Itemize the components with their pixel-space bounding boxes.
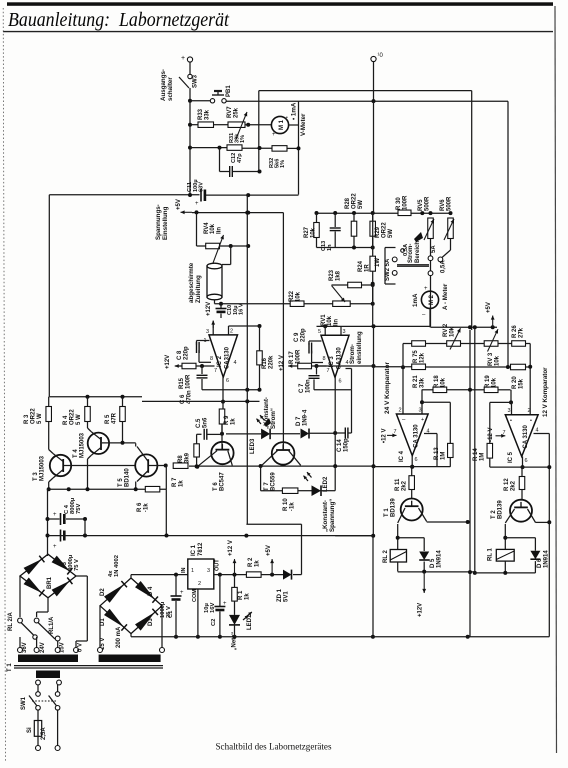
+5V arrow [492, 316, 494, 328]
svg-text:IN: IN [181, 567, 187, 573]
primary terminals [36, 680, 41, 685]
wire main rail [49, 194, 199, 196]
transistor T3 MJ15003 [50, 455, 71, 476]
op-amp IC2 CA3130 [209, 335, 238, 377]
wire T4 collector [88, 428, 92, 432]
wire right vertical x548 lower [548, 522, 550, 637]
svg-text:+: + [180, 590, 184, 596]
svg-text:0,5A: 0,5A [441, 260, 447, 273]
resistor R17 100R [289, 365, 298, 367]
transistor T6 BC547 [211, 442, 233, 464]
wire br1 left to RL2/A [19, 576, 21, 617]
wire bottom-left rail [48, 488, 167, 490]
resistor R16 220k [257, 351, 263, 365]
wire emitter to R10 [260, 466, 262, 491]
arrow +5V Spannungs-Einstellung [181, 211, 193, 213]
resistor R22 10k [215, 303, 291, 305]
svg-text:+: + [424, 286, 428, 292]
resistor R1 1k [234, 575, 236, 588]
resistor R14 1M [490, 401, 511, 403]
node [188, 193, 192, 197]
svg-text:3: 3 [343, 329, 346, 335]
svg-text:Si: Si [27, 727, 33, 733]
svg-text:3: 3 [207, 568, 210, 574]
svg-text:+12V: +12V [206, 302, 212, 316]
svg-text:IC 4: IC 4 [399, 450, 405, 462]
svg-text:2: 2 [399, 408, 402, 414]
svg-text:24V: 24V [40, 642, 46, 653]
potentiometer RV2 10k [447, 341, 461, 347]
fuse Si 2,5A [37, 710, 39, 720]
resistor R8 3k9 [194, 444, 200, 457]
capacitor C4 8000u 75V [48, 518, 60, 520]
node [371, 302, 375, 306]
svg-text:3: 3 [508, 408, 511, 414]
wire main raw rail [48, 535, 374, 537]
wire ic3 top line [317, 325, 431, 327]
svg-text:2: 2 [528, 408, 531, 414]
svg-text:8: 8 [210, 356, 213, 362]
wire [189, 62, 191, 74]
transistor T2 BD139 [510, 500, 532, 522]
wire IC1 COM down [197, 589, 199, 637]
resistor R28 OR22 5W [353, 213, 355, 221]
svg-text:6: 6 [415, 457, 418, 463]
wire +12V top [212, 321, 214, 335]
svg-text:RL1/A: RL1/A [49, 616, 55, 634]
svg-text:12 V Komparator: 12 V Komparator [542, 367, 549, 417]
node [195, 210, 199, 214]
capacitor C2 10u 16V [214, 574, 220, 576]
svg-text:+5V: +5V [486, 302, 492, 313]
wire [429, 308, 431, 327]
switch SW2 [385, 247, 396, 249]
svg-text:V-Meter: V-Meter [300, 113, 307, 136]
meter M1 1mA V-Meter [271, 116, 288, 133]
wire output row [490, 466, 550, 468]
resistor R7 1k [173, 463, 188, 469]
resistor R6 1k [145, 486, 160, 492]
svg-text:Schaltbild des Labornetzgeräte: Schaltbild des Labornetzgerätes [216, 742, 332, 752]
svg-text:+: + [421, 417, 424, 423]
transformer secondary taps [18, 648, 23, 653]
transistor T7 BC559 [272, 442, 295, 465]
resistor R24 1R 1W [372, 248, 374, 257]
svg-text:BR1: BR1 [47, 576, 53, 589]
wire cell1 bottom rail [398, 571, 475, 573]
wire konstant spannung row [335, 535, 373, 537]
svg-text:+: + [181, 55, 185, 62]
wire base row T3 to T5 [64, 465, 140, 467]
potentiometer RV3 10k [484, 341, 498, 347]
svg-text:IC 5: IC 5 [508, 451, 514, 463]
wire right vertical upper [548, 434, 550, 523]
wire [190, 147, 227, 149]
svg-text:7: 7 [327, 368, 330, 374]
node [468, 388, 472, 392]
wire [220, 245, 249, 247]
wire [402, 344, 404, 368]
wire [219, 148, 221, 172]
svg-text:5: 5 [318, 329, 321, 335]
capacitor C13 1n [334, 213, 336, 227]
svg-text:•12 V: •12 V [382, 429, 388, 443]
right page border [555, 6, 557, 753]
transistor T4 MJ15003 [88, 433, 109, 454]
wire C6 row [202, 389, 260, 391]
svg-text:•: • [530, 418, 532, 424]
wire pin4 loop [424, 433, 437, 435]
node dots x247 [245, 211, 249, 215]
resistor R31 39k 1% [227, 145, 242, 151]
wire middle rails [474, 327, 476, 573]
terminal 0,5A right [438, 257, 443, 262]
terminal output + [187, 57, 192, 62]
capacitor C3 8000u 75V [60, 530, 62, 542]
svg-text:R8 3k9: R8 3k9 [178, 452, 190, 463]
wire [258, 91, 260, 172]
potentiometer RV5 500R [428, 218, 434, 239]
wire tap stubs [19, 637, 21, 648]
capacitor C14 150p [335, 432, 345, 434]
rule under title [3, 31, 553, 33]
svg-text:+: + [223, 601, 227, 607]
svg-text:C10 10µ 16 V: C10 10µ 16 V [227, 303, 245, 315]
svg-text:+5V: +5V [266, 545, 272, 556]
wire br1 right [76, 575, 87, 577]
resistor R11 2k2 [411, 467, 413, 476]
svg-text:IC 2: IC 2 [217, 355, 223, 367]
op-amp IC3 CA3130 [324, 326, 326, 335]
relay RL1 [496, 549, 514, 561]
switch SW1 [37, 685, 39, 692]
resistor R26 27k [498, 343, 512, 345]
svg-text:•12 V: •12 V [488, 428, 494, 442]
svg-text:6: 6 [226, 378, 229, 384]
wire bottom rail [131, 636, 549, 638]
wire [321, 490, 335, 492]
svg-text:1W: 1W [375, 258, 381, 267]
wire to shielded lead [230, 246, 232, 265]
svg-text:1mA: 1mA [412, 293, 419, 307]
LED3 [261, 429, 270, 440]
wire T6 collector [221, 424, 223, 450]
node [200, 364, 204, 368]
svg-text:8: 8 [323, 356, 326, 362]
resistor R20 15k [511, 364, 526, 370]
wire T3 collector [49, 450, 53, 454]
wire zd1 up corner [293, 574, 302, 576]
wire [165, 489, 167, 535]
transformer secondary winding bars [18, 655, 78, 663]
wire [245, 124, 271, 126]
diode D6 1N914 [530, 551, 540, 560]
resistor R18 10k [422, 389, 433, 391]
resistor R19 10k [470, 389, 484, 391]
wire R8 top to C5 row [196, 434, 198, 444]
svg-text:CA3130: CA3130 [225, 346, 231, 369]
svg-text:CA 3130: CA 3130 [523, 424, 529, 448]
wire right column down [529, 344, 531, 367]
node junction SW3 bus [188, 99, 192, 103]
wire [190, 124, 198, 126]
svg-text:SW3: SW3 [193, 74, 199, 88]
wire [372, 285, 374, 304]
resistor R32 5k6 1% [272, 146, 287, 152]
resistor R21 33k [374, 366, 412, 368]
resistor R9 1k [222, 402, 224, 409]
LED1 [229, 615, 240, 625]
wire ic3 out down [334, 433, 336, 466]
svg-text:Bauanleitung: Labornetzgerät: Bauanleitung: Labornetzgerät [8, 9, 230, 31]
terminal 10 [371, 56, 376, 61]
op-amp IC4 CA3130 [396, 414, 428, 456]
svg-text:4: 4 [234, 360, 237, 366]
wire relay bottoms [397, 562, 399, 572]
wire [430, 292, 432, 327]
wire sw2 wiper bus [397, 264, 429, 266]
left page edge dotted [3, 8, 5, 762]
node [86, 395, 90, 399]
svg-text:+: + [272, 132, 276, 138]
wire left box edge [48, 195, 50, 397]
wire pin3 from R19 row [510, 390, 512, 403]
node [371, 282, 375, 286]
svg-text:+12 V: +12 V [279, 355, 285, 371]
wire [84, 519, 86, 536]
wire pin6 down [334, 377, 336, 433]
wire pin2 from R20 [529, 367, 531, 415]
wire right vertical A lower [469, 330, 471, 637]
wire [317, 247, 375, 249]
transformer core [14, 665, 163, 667]
resistor R25 12k [403, 343, 412, 345]
svg-text:C 14 150p: C 14 150p [337, 438, 349, 452]
wire [214, 300, 216, 304]
svg-text:RV5 500R: RV5 500R [418, 196, 430, 211]
wire br1 top [47, 554, 49, 556]
svg-text:• 1mA: • 1mA [291, 102, 298, 120]
capacitor C6 470n [201, 366, 203, 374]
wire [242, 147, 272, 149]
capacitor C8 220p [197, 340, 210, 342]
wire br1 bottom [47, 598, 49, 613]
svg-text:C2: C2 [211, 619, 217, 626]
resistor R33 33k [198, 122, 214, 128]
wire T1 emitter [419, 508, 427, 522]
relay contact RL2/A [18, 618, 23, 623]
resistor R4 OR22 5W [87, 397, 89, 407]
resistor R12 2k2 [521, 467, 523, 476]
node [188, 146, 192, 150]
svg-text:+12V: +12V [418, 603, 424, 617]
wire T5 base [149, 465, 166, 467]
svg-text:SW1: SW1 [21, 696, 27, 710]
resistor R15 100R [175, 365, 182, 367]
svg-text:D1: D1 [100, 618, 106, 626]
wire meter branch [289, 124, 299, 126]
wire right box B [507, 101, 509, 366]
svg-text:C.5 5n6: C.5 5n6 [196, 417, 208, 428]
svg-text:COM: COM [192, 589, 198, 602]
node [371, 283, 375, 287]
wire ic4 out [411, 456, 413, 467]
wire d-bridge top to IC1 in [130, 575, 132, 578]
svg-text:RV6 500R: RV6 500R [440, 196, 452, 211]
node [229, 244, 233, 248]
svg-text:OUT: OUT [215, 559, 221, 571]
svg-text:+5V: +5V [176, 199, 182, 210]
svg-text:24 V Komparator: 24 V Komparator [384, 362, 391, 414]
resistor R13 1M [422, 401, 450, 403]
svg-text:10µ 16V: 10µ 16V [204, 602, 216, 613]
svg-text:SW2 5A: SW2 5A [385, 258, 391, 281]
svg-text:36V: 36V [22, 642, 28, 653]
wire [316, 213, 318, 223]
bridge rectifier BR1 [20, 554, 76, 598]
resistor R10 1k [282, 488, 298, 494]
wire [196, 212, 198, 246]
svg-text:RL 1: RL 1 [488, 547, 494, 561]
node [218, 146, 222, 150]
potentiometer RV7 25k [228, 122, 245, 128]
switch SW3 [188, 74, 192, 78]
wire [316, 238, 318, 248]
svg-text:5A: 5A [431, 245, 437, 253]
svg-text:T 1: T 1 [7, 663, 13, 672]
svg-text:LED1: LED1 [247, 614, 253, 630]
+5V arrow [271, 559, 273, 575]
svg-text:+12V: +12V [165, 355, 171, 369]
svg-text:2: 2 [230, 329, 233, 335]
resistor R29 OR22 5W [372, 213, 374, 221]
svg-text:4: 4 [536, 428, 539, 434]
svg-text:R 17 100R: R 17 100R [289, 349, 301, 364]
+12V down arrow cell1 [423, 572, 425, 593]
wire upper box line [259, 90, 472, 92]
svg-text:RL 2/A: RL 2/A [8, 611, 14, 631]
node [246, 123, 250, 127]
capacitor C7 100n [316, 366, 318, 375]
wire T1 collector to relay [398, 508, 405, 523]
svg-text:•: • [286, 115, 288, 121]
diode D5 1N914 [419, 552, 429, 561]
shielded cable abgeschirmte Zuleitung [207, 266, 222, 297]
node bus-meter junction [372, 99, 376, 103]
transistor T5 BD140 [135, 454, 157, 476]
svg-text:LED2: LED2 [323, 476, 329, 492]
svg-text:200 mA: 200 mA [116, 626, 122, 648]
resistor R3 OR22 5W [48, 397, 50, 407]
wire output row [374, 466, 451, 468]
zener diode ZD1 5V1 [283, 570, 292, 580]
wire [214, 124, 229, 126]
capacitor C11 100u 63V [200, 189, 202, 202]
wire ic3 +line right [431, 326, 498, 328]
resistor R23 1k8 [332, 284, 348, 286]
svg-text:3: 3 [206, 329, 209, 335]
node [220, 432, 224, 436]
node [195, 464, 199, 468]
wire [261, 574, 283, 576]
resistor R30 100R [398, 210, 411, 216]
relay RL2 [390, 550, 406, 563]
svg-text:1: 1 [191, 568, 194, 574]
wire output rail mid [49, 396, 142, 398]
svg-text:•: • [510, 418, 512, 424]
wire [192, 212, 283, 214]
potentiometer RV4 10k lin [197, 245, 206, 247]
wire T2 collector to relay [505, 509, 514, 523]
transformer primary winding [36, 671, 60, 679]
wire cell2 bottom rail [475, 572, 536, 574]
wire [471, 91, 473, 330]
svg-text:D3: D3 [148, 618, 154, 626]
resistor R2 1k [246, 572, 261, 578]
svg-text:D 4: D 4 [148, 586, 154, 596]
svg-text:7: 7 [214, 368, 217, 374]
+12V arrow [234, 559, 236, 575]
node [315, 364, 319, 368]
svg-text:RL 2: RL 2 [383, 549, 389, 563]
wire pin3 from R18 row [421, 390, 423, 414]
wire d-bridge bottom [130, 634, 132, 637]
node [258, 146, 262, 150]
svg-text:R16 220k: R16 220k [262, 355, 274, 369]
svg-text:+: + [53, 544, 57, 550]
voltage regulator IC1 7812 [188, 559, 214, 589]
node [333, 431, 337, 435]
relay contact RL1/A [34, 618, 39, 623]
wire relay1 bottoms [504, 561, 506, 573]
wire pin2 from divider [402, 367, 404, 414]
wire x247 corner [246, 195, 248, 524]
svg-text:7812: 7812 [198, 542, 204, 556]
top black bar [7, 2, 553, 6]
node [258, 170, 262, 174]
op-amp IC5 CA3130 [505, 415, 538, 457]
wire ic5 out [522, 457, 524, 468]
potentiometer RV1 10k lin [333, 301, 351, 307]
wire T2 emitter [528, 509, 536, 523]
capacitor C1 1000u 25V [174, 573, 178, 577]
wire pin2 to R16 [228, 326, 230, 335]
bridge D1-D4 4x1N4002 [100, 578, 162, 634]
wire out row [220, 574, 247, 576]
svg-text:R 5 47R: R 5 47R [105, 412, 118, 424]
wire T4 base row [102, 442, 136, 444]
capacitor C10 10u 16V [219, 302, 223, 306]
svg-text:Strom- Bereich: Strom- Bereich [408, 241, 421, 263]
wire pin6 down [222, 377, 224, 401]
diode D7 1N914 [226, 433, 261, 435]
svg-text:¹0: ¹0 [378, 53, 384, 59]
svg-text:3: 3 [419, 408, 422, 414]
svg-text:CA 3130: CA 3130 [414, 424, 420, 448]
wire c7 row to pin4 [314, 389, 352, 391]
wire [287, 147, 299, 149]
svg-text:15V: 15V [60, 642, 66, 653]
svg-text:Spannungs- Einstellung: Spannungs- Einstellung [155, 203, 169, 240]
svg-text:6: 6 [525, 458, 528, 464]
svg-text:0 V: 0 V [78, 643, 84, 652]
node bottom rail [466, 635, 470, 639]
svg-text:+: + [195, 201, 199, 207]
svg-text:IC 1: IC 1 [191, 544, 197, 556]
terminal 0,5A [401, 249, 405, 253]
resistor R27 10k [314, 223, 320, 238]
wire output bus [190, 100, 211, 102]
